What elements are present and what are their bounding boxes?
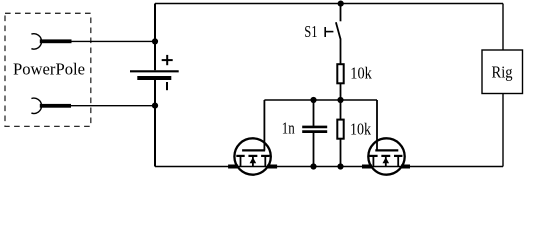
node resistor bottom (junction dot): [337, 163, 343, 169]
wire resistor R-bottom to bottom rail: [340, 139, 342, 167]
bottom rail wire: [155, 166, 503, 168]
PowerPole enclosure (dashed box): [5, 13, 91, 126]
connector J2 (lower PowerPole contact): [31, 98, 71, 113]
transistor Q1 (left MOSFET): [228, 138, 277, 174]
svg-text:10k: 10k: [350, 120, 371, 139]
battery plus mark: [162, 55, 173, 65]
wire gate node horizontal: [264, 99, 377, 101]
capacitor C1 1n: [302, 127, 327, 132]
wire right vertical top (rail to Rig): [502, 4, 504, 51]
PowerPole label: [13, 60, 85, 79]
Rig label: [492, 63, 513, 82]
svg-text:10k: 10k: [350, 64, 372, 83]
battery B1: [130, 71, 179, 78]
wire Rig to bottom rail: [502, 94, 504, 167]
Rig box U1: [482, 50, 523, 94]
switch S1 lever: [336, 22, 341, 38]
switch S1 label: [304, 22, 317, 41]
node battery negative (junction dot): [152, 103, 158, 109]
resistor R-top 10k (box body): [337, 64, 343, 83]
transistor Q2 (right MOSFET) gate wire: [376, 100, 378, 150]
svg-text:PowerPole: PowerPole: [13, 60, 85, 79]
label 1n: [282, 118, 295, 137]
battery minus mark: [166, 82, 168, 90]
svg-text:1n: 1n: [282, 118, 295, 137]
resistor R-bottom 10k (box body): [337, 120, 343, 139]
label 10k (top resistor): [350, 64, 372, 83]
label 10k (bottom resistor): [350, 120, 371, 139]
wire left vertical (battery branch, top): [155, 4, 503, 71]
node switch top (junction dot on top rail): [338, 1, 344, 7]
node battery positive (junction dot): [152, 38, 158, 44]
node capacitor bottom (junction dot): [310, 163, 316, 169]
wire J1 to battery positive node: [72, 40, 156, 42]
wire capacitor to bottom rail: [313, 133, 315, 167]
node resistor divider (junction dot): [337, 97, 343, 103]
connector J1 (upper PowerPole contact): [31, 34, 71, 49]
wire node to resistor R-bottom: [340, 100, 342, 120]
transistor Q1 (left MOSFET) gate wire: [263, 100, 265, 150]
wire left vertical (battery branch, bottom): [154, 79, 156, 167]
transistor Q2 (right MOSFET): [362, 138, 410, 174]
node capacitor top (junction dot): [310, 97, 316, 103]
wire J2 to battery negative node: [71, 105, 155, 107]
wire switch to resistor R-top: [340, 39, 342, 65]
switch S1 top contact stub: [340, 4, 342, 22]
svg-text:S1: S1: [304, 22, 317, 41]
wire resistor R-top to gate node: [340, 83, 342, 100]
switch S1 actuator mark: [325, 27, 333, 37]
svg-text:Rig: Rig: [492, 63, 513, 82]
wire node to capacitor: [313, 100, 315, 126]
